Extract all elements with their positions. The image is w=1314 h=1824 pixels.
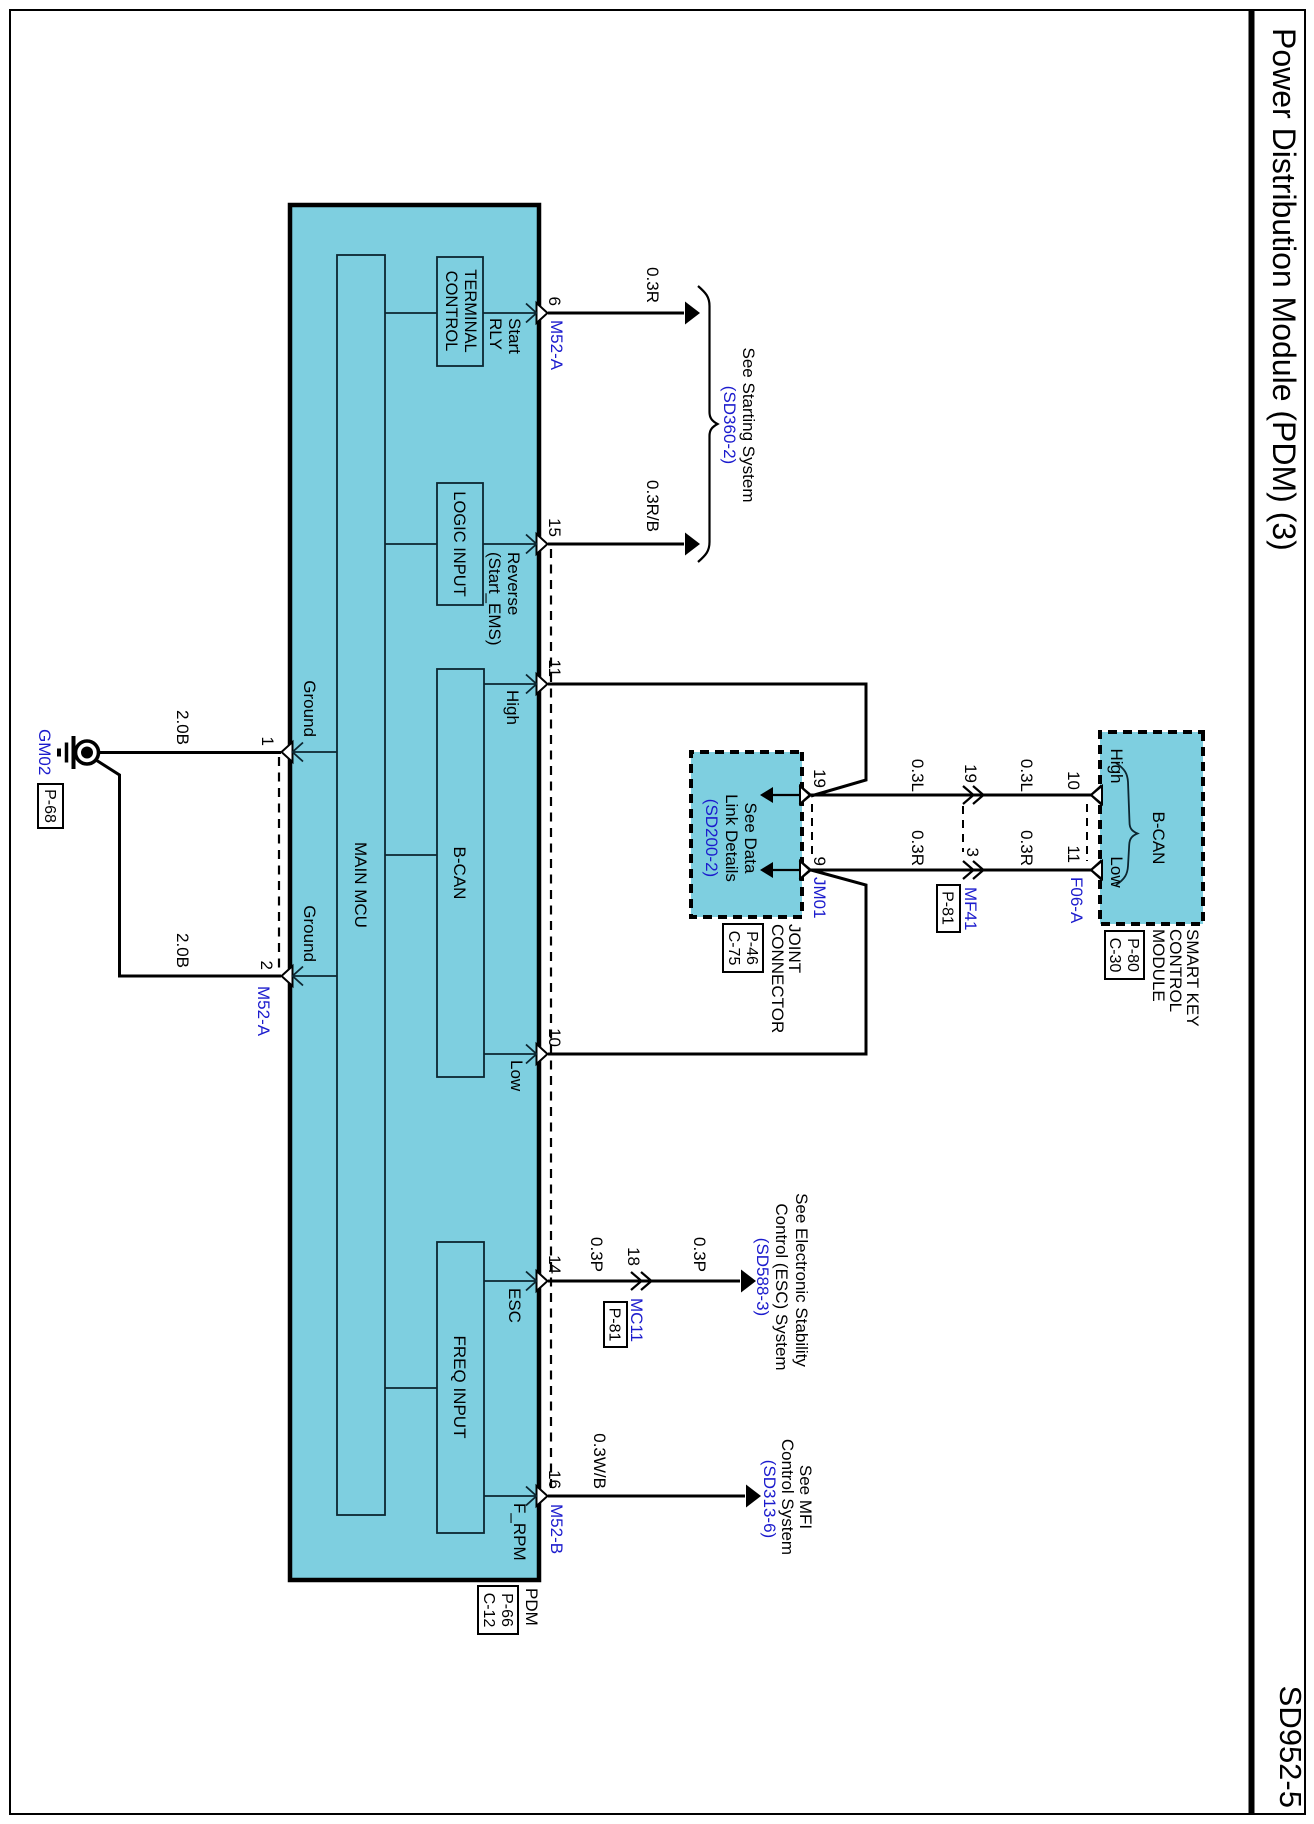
wire pin 16 F_RPM 0.3W/B [548, 1495, 745, 1498]
svg-text:(SD200-2): (SD200-2) [702, 799, 721, 877]
wire MCU to FREQ INPUT [385, 1387, 437, 1389]
svg-text:(Start_EMS): (Start_EMS) [485, 552, 504, 646]
svg-text:14: 14 [545, 1255, 564, 1274]
svg-text:2.0B: 2.0B [173, 710, 192, 745]
svg-text:PDM: PDM [522, 1588, 541, 1626]
pin 1 of PDM connector [282, 742, 293, 762]
wire MCU to ground pin 1 [292, 751, 337, 753]
JM01 pin 19 [800, 786, 811, 804]
svg-text:19: 19 [961, 764, 980, 783]
wire 2.0B pin 1 to ground GM02 [100, 751, 281, 754]
dashed pair line MF41 [962, 806, 964, 852]
svg-text:0.3R: 0.3R [908, 830, 927, 866]
svg-text:M52-B: M52-B [547, 1504, 566, 1554]
svg-text:0.3R/B: 0.3R/B [643, 480, 662, 532]
svg-text:0.3R: 0.3R [1017, 830, 1036, 866]
svg-text:Control (ESC) System: Control (ESC) System [772, 1203, 791, 1370]
wire pin 6, 0.3R [548, 312, 684, 315]
svg-text:Power Distribution Module (PDM: Power Distribution Module (PDM) (3) [1266, 28, 1302, 551]
svg-text:P-46: P-46 [743, 931, 760, 965]
svg-text:High: High [503, 690, 522, 725]
pin 6 of PDM connector [537, 303, 548, 323]
wire MCU to ground pin 2 [292, 975, 337, 977]
svg-text:(SD313-6): (SD313-6) [760, 1460, 779, 1538]
pin 10 of PDM connector [537, 1044, 548, 1064]
svg-text:0.3R: 0.3R [643, 267, 662, 303]
svg-text:F06-A: F06-A [1067, 877, 1086, 924]
pin 2 of PDM connector [282, 966, 293, 986]
wire B-CAN to pin 11 [484, 683, 537, 685]
svg-text:See Data: See Data [741, 803, 760, 874]
wire LOGIC INPUT to pin 15 [483, 543, 537, 545]
in-line connector MC11 pin 18 [641, 1272, 652, 1290]
svg-text:MODULE: MODULE [1149, 929, 1168, 1002]
svg-text:0.3P: 0.3P [587, 1237, 606, 1272]
wire JM01 pin 9 to smart key pin 11, 0.3R [811, 869, 1092, 872]
pin 14 of PDM connector [537, 1271, 548, 1291]
joint connector JM01 box [691, 752, 802, 917]
arrow into JM01 at pin 9 [772, 869, 801, 871]
B-CAN block [437, 669, 484, 1077]
svg-text:See Electronic Stability: See Electronic Stability [792, 1193, 811, 1367]
svg-text:P-81: P-81 [606, 1308, 623, 1342]
wire JM01 pin 19 to smart key pin 10, 0.3L [811, 794, 1092, 797]
svg-text:0.3W/B: 0.3W/B [590, 1433, 609, 1489]
JM01 pin 9 [800, 861, 811, 879]
wire MCU to B-CAN [385, 854, 437, 856]
connector ref box P-66 C-12 [478, 1586, 518, 1634]
svg-text:11: 11 [1064, 845, 1083, 863]
wire 2.0B pin 2 to ground GM02 [96, 760, 281, 976]
in-line connector MF41 pin 3 [973, 861, 984, 879]
dashed connector line M52 along top edge [550, 549, 552, 1491]
svg-text:P-66: P-66 [498, 1593, 515, 1627]
svg-text:See MFI: See MFI [796, 1465, 815, 1529]
svg-text:CONNECTOR: CONNECTOR [768, 924, 787, 1033]
PDM module box U1 [290, 205, 539, 1580]
svg-text:MAIN MCU: MAIN MCU [351, 842, 370, 928]
wire MCU to LOGIC INPUT [385, 543, 437, 545]
svg-text:MC11: MC11 [627, 1298, 646, 1342]
svg-text:ESC: ESC [505, 1288, 524, 1323]
wire MCU to TERMINAL CONTROL [385, 312, 437, 314]
svg-text:SD952-5: SD952-5 [1273, 1686, 1308, 1808]
svg-text:P-68: P-68 [41, 789, 58, 823]
ground GM02 symbol [76, 741, 99, 764]
svg-text:MF41: MF41 [961, 887, 980, 930]
arrow into JM01 at pin 19 [772, 794, 801, 796]
svg-text:F_RPM: F_RPM [510, 1503, 529, 1561]
pin 16 of PDM connector [537, 1486, 548, 1506]
header separator line [1249, 10, 1255, 1814]
svg-text:11: 11 [545, 659, 564, 677]
connector ref box P-46 C-75 [723, 924, 763, 972]
in-line connector MF41 pin 19 [973, 786, 984, 804]
brace B-CAN High/Low [1116, 763, 1138, 885]
wire B-CAN to pin 10 [484, 1053, 537, 1055]
svg-text:M52-A: M52-A [254, 986, 273, 1037]
svg-text:0.3P: 0.3P [690, 1237, 709, 1272]
svg-text:(SD588-3): (SD588-3) [753, 1238, 772, 1316]
wire B-CAN Low 0.3R from pin 10 to JM01 pin 9 [548, 870, 866, 1054]
svg-text:C-30: C-30 [1106, 938, 1123, 973]
svg-text:(SD360-2): (SD360-2) [720, 386, 739, 464]
connector ref box P-80 C-30 [1105, 931, 1144, 979]
svg-text:TERMINAL: TERMINAL [461, 269, 479, 352]
svg-text:10: 10 [545, 1028, 564, 1047]
svg-text:Reverse: Reverse [504, 552, 523, 615]
svg-text:JM01: JM01 [810, 877, 829, 919]
connector ref box P-81 [937, 885, 960, 932]
dashed pair line JM01 pins [811, 804, 813, 859]
wire pin 15, 0.3R/B [548, 543, 684, 546]
LOGIC INPUT block [437, 483, 483, 605]
smart key pin 10 [1091, 786, 1102, 804]
smart key pin 11 [1091, 861, 1102, 879]
svg-text:P-81: P-81 [939, 891, 956, 925]
svg-text:C-75: C-75 [725, 931, 742, 966]
svg-text:P-80: P-80 [1124, 938, 1141, 972]
svg-text:Low: Low [507, 1060, 526, 1092]
svg-text:9: 9 [810, 857, 829, 866]
svg-text:Link Details: Link Details [722, 794, 741, 882]
svg-text:Low: Low [1107, 856, 1126, 888]
svg-text:0.3L: 0.3L [1017, 759, 1036, 792]
svg-text:Control System: Control System [778, 1439, 797, 1555]
connector ref box P-68 [38, 784, 63, 828]
brace to starting system [698, 286, 718, 562]
svg-text:Ground: Ground [300, 905, 319, 962]
smart key control module box U2 [1100, 732, 1203, 924]
FREQ INPUT block [437, 1242, 484, 1533]
wire B-CAN High 0.3L from pin 11 to JM01 pin 19 [548, 684, 866, 796]
svg-text:M52-A: M52-A [547, 320, 566, 371]
svg-text:See Starting System: See Starting System [739, 348, 758, 503]
wire pin 14 ESC 0.3P [548, 1280, 740, 1283]
svg-text:10: 10 [1064, 771, 1083, 790]
MAIN MCU block [337, 255, 385, 1515]
wire FREQ INPUT to pin 16 [484, 1495, 537, 1497]
dashed connector line M52-A ground side [278, 757, 280, 971]
svg-text:Ground: Ground [300, 680, 319, 737]
connector ref box P-81 MC11 [604, 1302, 627, 1347]
pin 15 of PDM connector [537, 534, 548, 554]
svg-text:CONTROL: CONTROL [442, 271, 460, 352]
svg-text:GM02: GM02 [35, 729, 54, 775]
wire FREQ INPUT to pin 14 [484, 1280, 537, 1282]
svg-text:2: 2 [257, 961, 276, 970]
svg-text:C-12: C-12 [480, 1593, 497, 1628]
svg-text:18: 18 [624, 1247, 643, 1266]
svg-text:B-CAN: B-CAN [450, 847, 469, 900]
pin 11 of PDM connector [537, 674, 548, 694]
svg-text:3: 3 [963, 848, 982, 857]
svg-text:19: 19 [810, 769, 829, 788]
svg-text:2.0B: 2.0B [173, 933, 192, 968]
svg-text:1: 1 [258, 737, 277, 746]
dashed pair line F06-A [1086, 804, 1088, 861]
svg-text:RLY: RLY [486, 318, 505, 350]
svg-text:6: 6 [545, 297, 564, 306]
wire TERMINAL CONTROL to pin 6 [483, 312, 537, 314]
svg-text:FREQ INPUT: FREQ INPUT [450, 1336, 469, 1439]
svg-text:Start: Start [505, 318, 524, 354]
svg-text:High: High [1107, 749, 1126, 784]
svg-text:15: 15 [545, 518, 564, 537]
TERMINAL CONTROL block [437, 257, 483, 366]
svg-text:0.3L: 0.3L [908, 759, 927, 792]
svg-text:LOGIC INPUT: LOGIC INPUT [450, 491, 468, 596]
svg-text:B-CAN: B-CAN [1149, 812, 1168, 865]
svg-text:16: 16 [545, 1470, 564, 1489]
